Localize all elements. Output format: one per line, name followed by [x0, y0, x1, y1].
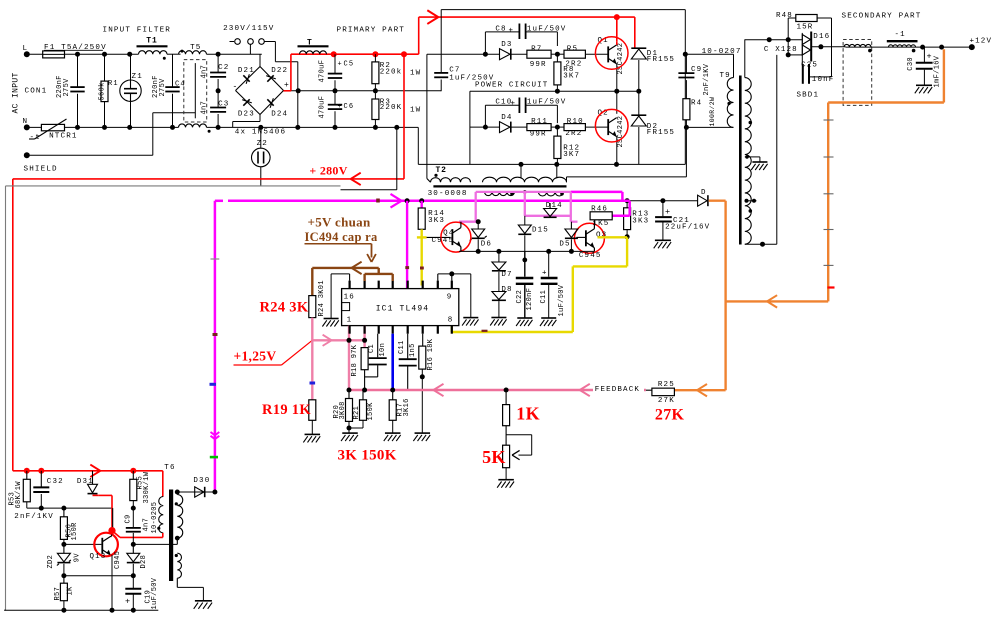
- svg-text:1W: 1W: [410, 70, 421, 78]
- svg-text:C7: C7: [449, 66, 460, 74]
- svg-text:D16: D16: [813, 33, 830, 41]
- svg-text:SBD1: SBD1: [797, 92, 820, 100]
- svg-text:T5: T5: [190, 44, 201, 52]
- svg-text:T2: T2: [436, 166, 447, 175]
- svg-text:3K7: 3K7: [563, 151, 580, 159]
- svg-text:330K/1W: 330K/1W: [143, 471, 151, 503]
- svg-text:R4: R4: [691, 99, 702, 107]
- svg-text:D8: D8: [501, 286, 512, 294]
- svg-text:30-0008: 30-0008: [428, 190, 468, 198]
- svg-text:C2: C2: [218, 64, 229, 72]
- svg-text:+: +: [284, 81, 290, 90]
- svg-text:R24 3K01: R24 3K01: [318, 280, 326, 316]
- svg-text:IC1 TL494: IC1 TL494: [376, 305, 430, 314]
- svg-text:3K08: 3K08: [339, 401, 347, 419]
- svg-text:R21: R21: [353, 406, 361, 420]
- svg-text:D6: D6: [481, 241, 492, 249]
- svg-text:+12V: +12V: [970, 38, 993, 46]
- svg-text:3K3: 3K3: [632, 218, 649, 226]
- svg-text:1uF/50V: 1uF/50V: [558, 284, 566, 316]
- svg-text:9V: 9V: [74, 553, 82, 563]
- svg-text:470uF: 470uF: [319, 60, 327, 83]
- svg-text:3K 150K: 3K 150K: [338, 448, 397, 464]
- svg-text:+: +: [509, 27, 515, 35]
- svg-text:D3: D3: [501, 41, 512, 49]
- svg-text:AC INPUT: AC INPUT: [12, 72, 21, 113]
- svg-text:+: +: [511, 100, 517, 108]
- svg-text:D: D: [701, 189, 707, 197]
- svg-text:99R: 99R: [530, 130, 547, 138]
- svg-text:10n: 10n: [379, 343, 387, 357]
- svg-text:10-0207: 10-0207: [702, 48, 742, 56]
- svg-text:IC494 cap ra: IC494 cap ra: [305, 230, 378, 244]
- svg-text:22uF/16V: 22uF/16V: [665, 223, 710, 231]
- svg-text:1uF/50V: 1uF/50V: [151, 577, 159, 609]
- svg-text:-: -: [233, 83, 239, 92]
- svg-text:D24: D24: [271, 111, 288, 119]
- svg-text:Z2: Z2: [257, 140, 268, 148]
- svg-text:R48: R48: [776, 12, 793, 20]
- svg-text:INPUT FILTER: INPUT FILTER: [103, 27, 171, 35]
- svg-text:POWER CIRCUIT: POWER CIRCUIT: [475, 82, 548, 90]
- svg-text:99R: 99R: [530, 61, 547, 69]
- svg-text:470uF: 470uF: [319, 96, 327, 119]
- svg-text:C32: C32: [47, 478, 64, 486]
- svg-text:C30: C30: [907, 57, 915, 71]
- svg-text:R57: R57: [54, 587, 62, 601]
- svg-text:2SC4242: 2SC4242: [617, 116, 625, 148]
- svg-text:Z1: Z1: [132, 73, 143, 81]
- svg-text:1K: 1K: [67, 586, 75, 596]
- svg-text:+ 280V: + 280V: [309, 164, 347, 178]
- svg-text:4n7: 4n7: [201, 101, 209, 115]
- svg-text:1mF/16V: 1mF/16V: [934, 55, 942, 87]
- svg-text:NTCR1: NTCR1: [49, 132, 78, 140]
- svg-text:R10: R10: [567, 118, 584, 126]
- svg-text:+5V chuan: +5V chuan: [308, 215, 371, 230]
- svg-text:D7: D7: [501, 271, 512, 279]
- svg-text:D30: D30: [193, 477, 210, 485]
- svg-text:275V: 275V: [63, 78, 71, 97]
- svg-text:C X128: C X128: [764, 46, 798, 54]
- svg-text:D23: D23: [238, 111, 255, 119]
- svg-text:4n7: 4n7: [143, 518, 151, 532]
- svg-text:PRIMARY PART: PRIMARY PART: [337, 27, 405, 35]
- svg-text:CON1: CON1: [25, 88, 48, 96]
- svg-text:2SC4242: 2SC4242: [617, 43, 625, 75]
- svg-text:+: +: [542, 270, 548, 278]
- svg-text:FR155: FR155: [647, 56, 675, 64]
- svg-text:Q13: Q13: [90, 553, 107, 561]
- svg-text:R11: R11: [531, 118, 548, 126]
- svg-text:C11: C11: [540, 290, 548, 304]
- svg-text:1n5: 1n5: [409, 343, 417, 357]
- svg-text:5K: 5K: [482, 447, 506, 467]
- svg-text:C945: C945: [579, 252, 602, 260]
- svg-text:220K: 220K: [380, 104, 403, 112]
- svg-text:100R/2W: 100R/2W: [709, 97, 716, 127]
- svg-text:R16 18K: R16 18K: [427, 338, 435, 370]
- svg-text:230V/115V: 230V/115V: [223, 25, 274, 33]
- svg-text:D15: D15: [532, 227, 549, 235]
- svg-text:-1: -1: [895, 31, 906, 39]
- svg-text:C945: C945: [114, 551, 122, 569]
- svg-text:C3: C3: [218, 100, 229, 108]
- svg-text:SECONDARY PART: SECONDARY PART: [842, 13, 922, 21]
- svg-text:3K7: 3K7: [563, 72, 580, 80]
- svg-text:R24 3K: R24 3K: [260, 300, 309, 316]
- svg-text:D4: D4: [501, 114, 512, 122]
- svg-text:C25: C25: [801, 61, 818, 69]
- svg-text:R19 1K: R19 1K: [262, 402, 311, 418]
- svg-text:15R: 15R: [797, 23, 814, 31]
- svg-text:C1: C1: [368, 344, 376, 353]
- svg-text:1W: 1W: [410, 107, 421, 115]
- svg-text:SHIELD: SHIELD: [24, 166, 58, 174]
- svg-text:C5: C5: [344, 61, 355, 69]
- svg-text:2R2: 2R2: [565, 130, 582, 138]
- svg-text:+: +: [665, 207, 671, 217]
- svg-text:120nF: 120nF: [526, 288, 534, 311]
- svg-text:R18 97K: R18 97K: [351, 344, 359, 376]
- svg-text:560k: 560k: [99, 82, 107, 100]
- svg-text:R5: R5: [567, 46, 578, 54]
- svg-text:-t: -t: [30, 134, 41, 142]
- svg-text:1K5: 1K5: [593, 220, 610, 228]
- svg-text:4n7: 4n7: [201, 65, 209, 79]
- svg-text:R25: R25: [658, 381, 675, 389]
- svg-text:D28: D28: [140, 555, 148, 569]
- svg-text:L: L: [23, 45, 29, 53]
- svg-text:68K/1W: 68K/1W: [15, 481, 23, 509]
- svg-text:D5: D5: [559, 241, 570, 249]
- svg-text:N: N: [23, 118, 29, 126]
- svg-text:R46: R46: [591, 206, 608, 214]
- svg-text:C22: C22: [516, 290, 524, 304]
- svg-text:220k: 220k: [380, 68, 403, 76]
- svg-text:+: +: [338, 61, 343, 69]
- svg-text:275V: 275V: [159, 78, 167, 97]
- svg-text:150K: 150K: [367, 402, 375, 421]
- svg-text:10nF: 10nF: [812, 76, 835, 84]
- svg-text:2nF/1KV: 2nF/1KV: [703, 63, 711, 95]
- svg-text:1K: 1K: [516, 404, 540, 424]
- svg-text:27K: 27K: [658, 397, 675, 405]
- svg-text:R1: R1: [108, 80, 119, 88]
- svg-text:3K3: 3K3: [428, 217, 445, 225]
- svg-text:C9: C9: [691, 66, 702, 74]
- svg-text:3K16: 3K16: [403, 398, 411, 416]
- svg-text:T1: T1: [146, 37, 157, 46]
- svg-text:150R: 150R: [71, 522, 79, 541]
- svg-text:D22: D22: [271, 67, 288, 75]
- svg-text:C6: C6: [344, 103, 355, 111]
- svg-text:9: 9: [447, 294, 453, 302]
- svg-text:ZD2: ZD2: [47, 555, 55, 569]
- svg-text:+: +: [125, 597, 131, 607]
- svg-text:16: 16: [344, 294, 355, 302]
- svg-text:+: +: [338, 103, 343, 111]
- svg-text:27K: 27K: [655, 407, 685, 424]
- svg-text:D14: D14: [546, 202, 563, 210]
- svg-text:2nF/1KV: 2nF/1KV: [14, 513, 54, 521]
- svg-text:FR155: FR155: [647, 129, 675, 137]
- svg-text:D21: D21: [238, 67, 255, 75]
- svg-text:R7: R7: [531, 46, 542, 54]
- svg-text:C11: C11: [398, 340, 406, 354]
- svg-text:1: 1: [347, 317, 353, 325]
- svg-text:C945: C945: [432, 237, 455, 245]
- svg-text:8: 8: [448, 317, 454, 325]
- svg-text:T6: T6: [164, 464, 175, 472]
- svg-text:+: +: [927, 52, 933, 62]
- svg-text:T: T: [307, 39, 313, 48]
- svg-text:C9: C9: [125, 514, 133, 523]
- svg-text:FEEDBACK: FEEDBACK: [595, 386, 640, 394]
- svg-text:+1,25V: +1,25V: [234, 349, 277, 364]
